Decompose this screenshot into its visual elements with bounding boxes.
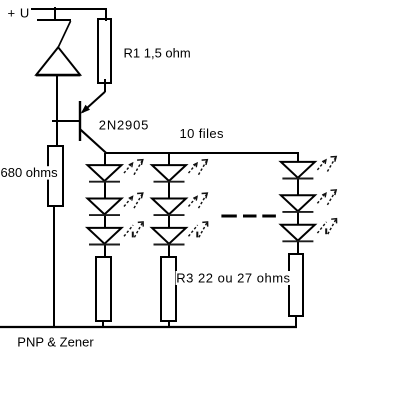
svg-text:+ U: + U [8,5,30,20]
svg-text:R1 1,5 ohm: R1 1,5 ohm [124,45,191,60]
svg-text:680 ohms: 680 ohms [1,165,59,180]
svg-text:10 files: 10 files [180,126,224,141]
svg-text:PNP & Zener: PNP & Zener [17,335,94,350]
svg-text:R3 22 ou 27 ohms: R3 22 ou 27 ohms [176,271,290,286]
svg-text:2N2905: 2N2905 [99,118,149,133]
